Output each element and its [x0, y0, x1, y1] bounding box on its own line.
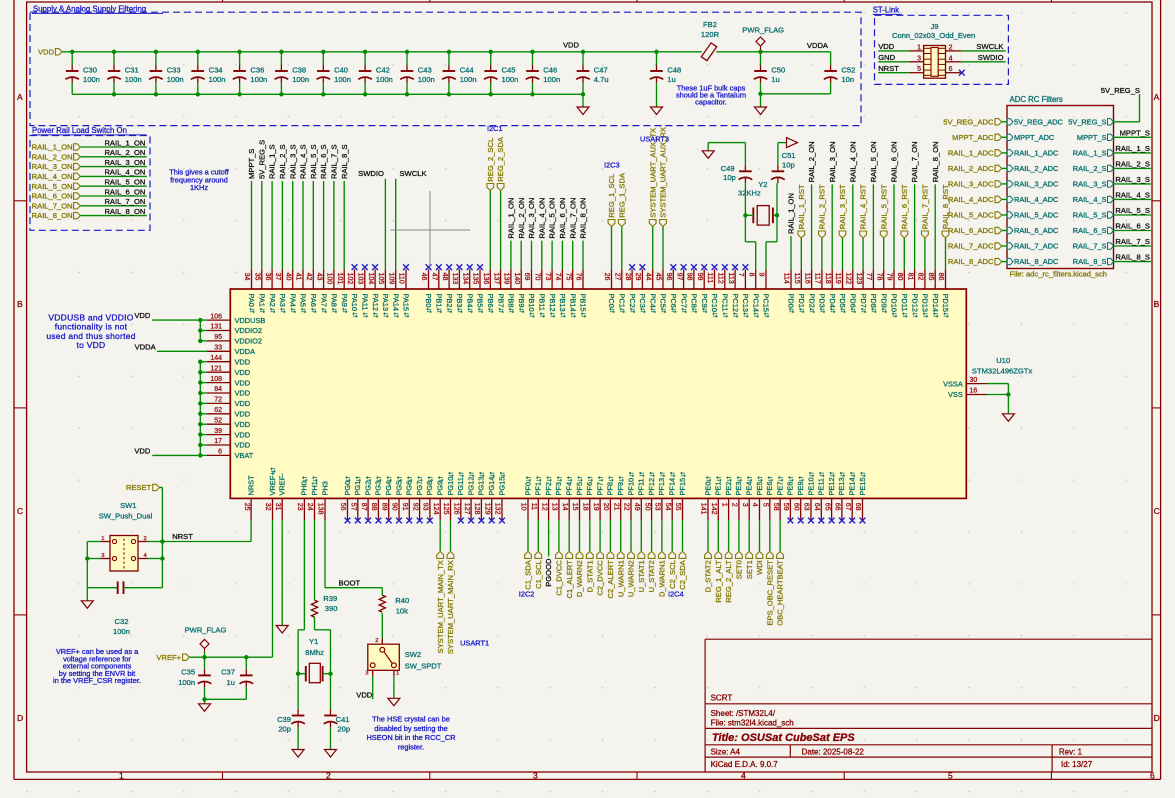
svg-text:128: 128 [473, 503, 480, 515]
svg-text:31: 31 [274, 503, 281, 511]
svg-text:84: 84 [214, 386, 222, 393]
svg-text:Supply & Analog Supply Filteri: Supply & Analog Supply Filtering [33, 5, 146, 14]
svg-text:141: 141 [700, 503, 707, 515]
svg-text:C35: C35 [181, 668, 195, 677]
svg-text:131: 131 [210, 324, 222, 331]
svg-text:register.: register. [398, 742, 424, 751]
svg-text:PF15: PF15 [678, 478, 687, 496]
svg-text:135: 135 [472, 273, 479, 285]
svg-text:RAIL_6_ADC: RAIL_6_ADC [1014, 226, 1059, 235]
svg-text:RAIL_3_ON: RAIL_3_ON [32, 162, 73, 171]
svg-text:PC9: PC9 [700, 294, 709, 308]
svg-text:VDD: VDD [134, 446, 151, 455]
svg-text:C37: C37 [221, 668, 235, 677]
svg-text:PA8: PA8 [330, 294, 339, 307]
svg-text:PG15: PG15 [497, 477, 506, 496]
svg-text:98: 98 [686, 273, 693, 281]
svg-text:VBAT: VBAT [235, 451, 254, 460]
svg-text:100n: 100n [292, 75, 309, 84]
svg-text:74: 74 [554, 273, 561, 281]
svg-text:52: 52 [214, 417, 222, 424]
svg-text:63: 63 [803, 503, 810, 511]
svg-text:2: 2 [731, 503, 738, 507]
svg-text:81: 81 [906, 273, 913, 281]
svg-text:PB8: PB8 [507, 294, 516, 308]
svg-text:C45: C45 [502, 65, 516, 74]
svg-text:PF11: PF11 [637, 478, 646, 495]
svg-text:PG12: PG12 [466, 477, 475, 496]
svg-text:85: 85 [927, 273, 934, 281]
svg-text:PA6: PA6 [309, 294, 318, 307]
svg-text:PA7: PA7 [319, 294, 328, 307]
svg-text:PF6: PF6 [585, 482, 594, 496]
svg-text:SET0: SET0 [735, 560, 744, 579]
svg-text:RAIL_2_S: RAIL_2_S [1115, 159, 1150, 168]
svg-text:RAIL_3_S: RAIL_3_S [1073, 180, 1107, 189]
svg-text:23: 23 [296, 503, 303, 511]
svg-text:PD10: PD10 [890, 294, 899, 313]
svg-text:25: 25 [243, 503, 250, 511]
svg-text:58: 58 [772, 503, 779, 511]
svg-text:REG_1_SCL: REG_1_SCL [607, 174, 616, 218]
svg-text:PC1: PC1 [618, 294, 627, 308]
svg-text:390: 390 [325, 604, 338, 613]
svg-text:100n: 100n [418, 75, 435, 84]
svg-text:RAIL_1_ON: RAIL_1_ON [787, 193, 796, 234]
svg-text:6: 6 [1150, 771, 1155, 781]
svg-text:PD5: PD5 [838, 294, 847, 308]
svg-text:3: 3 [741, 503, 748, 507]
svg-text:Rev: 1: Rev: 1 [1059, 748, 1083, 757]
svg-text:134: 134 [461, 273, 468, 285]
svg-text:RAIL_8_ON: RAIL_8_ON [579, 198, 588, 239]
svg-text:PG7: PG7 [415, 481, 424, 496]
svg-text:RAIL_2_ON: RAIL_2_ON [517, 198, 526, 239]
svg-text:RAIL_8_ADC: RAIL_8_ADC [1014, 257, 1059, 266]
svg-text:15: 15 [571, 503, 578, 511]
svg-text:65: 65 [823, 503, 830, 511]
svg-text:Date: 2025-08-22: Date: 2025-08-22 [802, 748, 865, 757]
svg-text:PB5: PB5 [476, 294, 485, 308]
svg-text:142: 142 [710, 503, 717, 515]
svg-text:PA2: PA2 [268, 294, 277, 307]
svg-text:MPPT_S: MPPT_S [247, 149, 256, 179]
svg-text:PD2: PD2 [807, 294, 816, 308]
svg-text:RAIL_2_ON: RAIL_2_ON [807, 141, 816, 182]
svg-text:VDD: VDD [38, 47, 55, 56]
svg-text:PG9: PG9 [436, 481, 445, 496]
svg-text:5V_REG_S: 5V_REG_S [1068, 117, 1106, 126]
svg-text:100n: 100n [83, 75, 100, 84]
svg-text:PD11: PD11 [900, 294, 909, 312]
svg-text:118: 118 [824, 273, 831, 284]
svg-text:PA5: PA5 [299, 294, 308, 307]
svg-text:U10: U10 [996, 356, 1010, 365]
svg-text:PC2: PC2 [628, 294, 637, 308]
svg-text:3: 3 [533, 771, 538, 781]
svg-text:D_STAT2: D_STAT2 [704, 560, 713, 592]
svg-text:D: D [17, 713, 23, 723]
svg-text:RAIL_6_ON: RAIL_6_ON [104, 187, 145, 196]
svg-text:RESET: RESET [126, 483, 152, 492]
svg-text:91: 91 [401, 503, 408, 511]
svg-text:100n: 100n [502, 75, 519, 84]
svg-text:RAIL_7_ON: RAIL_7_ON [568, 198, 577, 239]
svg-text:PD3: PD3 [818, 294, 827, 308]
svg-text:C2_ALERT: C2_ALERT [606, 560, 615, 599]
svg-text:PC15: PC15 [762, 294, 771, 313]
svg-text:100n: 100n [167, 75, 184, 84]
svg-text:53: 53 [654, 503, 661, 511]
svg-text:PB12: PB12 [548, 294, 557, 312]
svg-text:RAIL_7_S: RAIL_7_S [330, 144, 339, 179]
svg-text:144: 144 [210, 355, 222, 362]
svg-text:33: 33 [214, 345, 222, 352]
svg-text:PB2: PB2 [445, 294, 454, 308]
svg-text:100n: 100n [376, 75, 393, 84]
svg-text:RAIL_5_RST: RAIL_5_RST [879, 184, 888, 229]
svg-text:RAIL_3_S: RAIL_3_S [1115, 175, 1150, 184]
svg-text:SW_Push_Dual: SW_Push_Dual [99, 512, 153, 521]
svg-text:PE9: PE9 [796, 482, 805, 496]
svg-text:PD4: PD4 [828, 294, 837, 308]
svg-text:USART1: USART1 [460, 638, 489, 647]
svg-text:RAIL_5_ADC: RAIL_5_ADC [948, 211, 994, 220]
svg-text:1: 1 [119, 771, 124, 781]
svg-text:14: 14 [561, 503, 568, 511]
svg-text:RAIL_2_S: RAIL_2_S [1073, 164, 1107, 173]
svg-text:File: adc_rc_filters.kicad_sch: File: adc_rc_filters.kicad_sch [1010, 269, 1108, 278]
svg-text:PB1: PB1 [435, 294, 444, 308]
svg-text:129: 129 [483, 503, 490, 515]
svg-text:7: 7 [737, 273, 744, 277]
svg-text:PF4: PF4 [565, 482, 574, 496]
svg-text:PD15: PD15 [941, 294, 950, 313]
svg-text:21: 21 [612, 503, 619, 511]
svg-text:124: 124 [432, 503, 439, 515]
svg-text:RAIL_6_ON: RAIL_6_ON [890, 141, 899, 182]
svg-text:U_STAT2: U_STAT2 [647, 560, 656, 592]
svg-text:50: 50 [643, 503, 650, 511]
svg-text:SYSTEM_UART_MAIN_RX: SYSTEM_UART_MAIN_RX [446, 560, 455, 654]
svg-text:PA4: PA4 [288, 294, 297, 307]
svg-text:D_WARN1: D_WARN1 [658, 560, 667, 597]
svg-text:66: 66 [834, 503, 841, 511]
svg-text:SET1: SET1 [745, 560, 754, 579]
svg-text:55: 55 [674, 503, 681, 511]
svg-text:139: 139 [503, 273, 510, 285]
svg-text:PH3: PH3 [320, 481, 329, 495]
svg-text:93: 93 [422, 503, 429, 511]
svg-text:PB7: PB7 [496, 294, 505, 308]
svg-text:PE7: PE7 [775, 482, 784, 496]
svg-text:C2_SDA: C2_SDA [678, 559, 687, 589]
svg-text:100n: 100n [460, 75, 477, 84]
svg-text:PG13: PG13 [477, 477, 486, 496]
svg-text:10p: 10p [782, 160, 795, 169]
svg-text:A: A [17, 92, 23, 102]
svg-text:Size: A4: Size: A4 [711, 748, 741, 757]
svg-text:C49: C49 [721, 164, 735, 173]
svg-text:RAIL_5_ADC: RAIL_5_ADC [1014, 211, 1059, 220]
svg-text:PG11: PG11 [456, 477, 465, 495]
svg-text:PC11: PC11 [721, 294, 730, 312]
svg-text:68: 68 [854, 503, 861, 511]
svg-text:1u: 1u [667, 75, 675, 84]
svg-text:PA10: PA10 [350, 294, 359, 312]
svg-text:89: 89 [380, 503, 387, 511]
svg-text:J9: J9 [930, 22, 938, 31]
svg-text:VDD: VDD [235, 378, 251, 387]
svg-text:79: 79 [886, 273, 893, 281]
svg-text:BOOT: BOOT [339, 578, 361, 587]
svg-text:PF10: PF10 [626, 478, 635, 496]
svg-text:The HSE crystal can be: The HSE crystal can be [372, 715, 450, 724]
svg-text:RAIL_7_ADC: RAIL_7_ADC [948, 242, 994, 251]
svg-text:PD12: PD12 [910, 294, 919, 313]
svg-text:C50: C50 [771, 65, 785, 74]
svg-text:116: 116 [803, 273, 810, 284]
svg-text:B: B [1154, 299, 1160, 309]
svg-text:8: 8 [747, 273, 754, 277]
svg-text:VDD: VDD [235, 389, 251, 398]
svg-text:112: 112 [717, 273, 724, 284]
svg-text:REG_2_ALT: REG_2_ALT [724, 560, 733, 603]
svg-text:VDD: VDD [235, 420, 251, 429]
svg-text:R40: R40 [395, 596, 409, 605]
svg-text:HSEON bit in the RCC_CR: HSEON bit in the RCC_CR [366, 733, 455, 742]
svg-text:RAIL_6_S: RAIL_6_S [1115, 222, 1150, 231]
svg-text:RAIL_2_ON: RAIL_2_ON [32, 152, 73, 161]
svg-text:114: 114 [783, 273, 790, 284]
svg-text:90: 90 [391, 503, 398, 511]
svg-text:100n: 100n [543, 75, 560, 84]
svg-text:RAIL_3_ON: RAIL_3_ON [527, 198, 536, 239]
svg-text:PG2: PG2 [363, 481, 372, 496]
svg-text:Y2: Y2 [758, 180, 767, 189]
svg-text:ST-Link: ST-Link [873, 6, 900, 15]
svg-text:41: 41 [295, 273, 302, 281]
svg-text:VDD: VDD [235, 441, 251, 450]
svg-text:16: 16 [970, 388, 978, 395]
svg-text:78: 78 [875, 273, 882, 281]
svg-text:SWDIO: SWDIO [978, 53, 1004, 62]
svg-text:82: 82 [917, 273, 924, 281]
svg-text:REG_1_ALT: REG_1_ALT [714, 560, 723, 603]
svg-text:3: 3 [917, 55, 921, 62]
svg-text:PE2: PE2 [724, 482, 733, 496]
svg-text:101: 101 [336, 273, 343, 285]
svg-text:103: 103 [357, 273, 364, 285]
svg-text:PE5: PE5 [755, 482, 764, 496]
svg-text:SYSTEM_UART_MAIN_TX: SYSTEM_UART_MAIN_TX [436, 560, 445, 653]
svg-text:RAIL_1_ON: RAIL_1_ON [507, 198, 516, 239]
svg-text:RAIL_7_ON: RAIL_7_ON [32, 201, 73, 210]
svg-text:9: 9 [758, 273, 765, 277]
svg-text:C39: C39 [277, 715, 291, 724]
svg-text:28: 28 [624, 273, 631, 281]
svg-text:SCRT: SCRT [711, 693, 733, 702]
svg-text:A: A [1154, 92, 1160, 102]
svg-text:127: 127 [463, 503, 470, 515]
svg-text:136: 136 [482, 273, 489, 285]
svg-text:60: 60 [792, 503, 799, 511]
svg-text:11: 11 [530, 503, 537, 510]
svg-text:PE3: PE3 [734, 482, 743, 496]
svg-text:4.7u: 4.7u [594, 75, 609, 84]
svg-text:48: 48 [441, 273, 448, 281]
svg-text:PE1: PE1 [714, 482, 723, 496]
svg-text:U_STAT1: U_STAT1 [637, 560, 646, 592]
svg-text:137: 137 [492, 273, 499, 285]
svg-text:67: 67 [844, 503, 851, 511]
svg-text:PC13: PC13 [741, 294, 750, 313]
svg-text:NRST: NRST [878, 64, 899, 73]
svg-text:PC4: PC4 [648, 294, 657, 308]
svg-text:49: 49 [633, 503, 640, 511]
svg-text:1: 1 [101, 536, 104, 542]
svg-text:100n: 100n [334, 75, 351, 84]
svg-text:32: 32 [264, 503, 271, 511]
svg-text:VSS: VSS [948, 390, 963, 399]
svg-text:32KHz: 32KHz [738, 189, 761, 198]
svg-text:100n: 100n [250, 75, 267, 84]
svg-text:62: 62 [214, 407, 222, 414]
svg-text:PB4: PB4 [465, 294, 474, 308]
svg-text:5V_REG_S: 5V_REG_S [1101, 86, 1140, 95]
svg-text:5: 5 [762, 503, 769, 507]
svg-text:PD9: PD9 [879, 294, 888, 308]
svg-text:VDD: VDD [356, 690, 373, 699]
svg-text:45: 45 [655, 273, 662, 281]
svg-text:59: 59 [782, 503, 789, 511]
svg-text:C42: C42 [376, 65, 390, 74]
svg-text:PC6: PC6 [669, 294, 678, 308]
svg-text:C2_DVCC: C2_DVCC [596, 560, 605, 596]
svg-text:RAIL_7_RST: RAIL_7_RST [921, 184, 930, 229]
svg-text:RAIL_8_S: RAIL_8_S [1073, 257, 1107, 266]
svg-text:Sheet: /STM32L4/: Sheet: /STM32L4/ [711, 709, 776, 718]
svg-text:PC0: PC0 [607, 294, 616, 308]
svg-text:100n: 100n [125, 75, 142, 84]
svg-text:PE8: PE8 [786, 482, 795, 496]
svg-text:RAIL_4_S: RAIL_4_S [1115, 190, 1150, 199]
svg-text:44: 44 [644, 273, 651, 281]
svg-text:MPPT_S: MPPT_S [1120, 128, 1150, 137]
svg-text:PB10: PB10 [527, 294, 536, 312]
svg-text:RAIL_8_ADC: RAIL_8_ADC [948, 257, 994, 266]
svg-text:USART3: USART3 [640, 135, 669, 144]
svg-text:69: 69 [523, 273, 530, 281]
svg-text:22: 22 [623, 503, 630, 511]
svg-text:RAIL_2_S: RAIL_2_S [278, 144, 287, 179]
svg-text:10p: 10p [723, 173, 736, 182]
svg-text:PC5: PC5 [659, 294, 668, 308]
svg-text:PF0: PF0 [523, 482, 532, 496]
svg-text:1u: 1u [771, 75, 779, 84]
svg-text:54: 54 [664, 503, 671, 511]
svg-text:RAIL_4_ON: RAIL_4_ON [32, 172, 73, 181]
svg-text:102: 102 [346, 273, 353, 285]
svg-text:20: 20 [602, 503, 609, 511]
svg-text:35: 35 [254, 273, 261, 281]
svg-text:87: 87 [360, 503, 367, 511]
svg-text:75: 75 [564, 273, 571, 281]
svg-text:U_WARN2: U_WARN2 [627, 560, 636, 597]
svg-text:C32: C32 [115, 617, 129, 626]
svg-text:VDD: VDD [235, 399, 251, 408]
svg-text:PE15: PE15 [858, 477, 867, 495]
svg-text:PE10: PE10 [806, 477, 815, 495]
svg-text:C30: C30 [83, 65, 97, 74]
svg-text:PF1: PF1 [534, 482, 543, 496]
svg-text:111: 111 [706, 273, 713, 284]
svg-text:37: 37 [274, 273, 281, 281]
svg-text:VDDA: VDDA [235, 347, 256, 356]
svg-text:126: 126 [453, 503, 460, 515]
svg-text:VREF-: VREF- [278, 473, 287, 496]
svg-text:96: 96 [665, 273, 672, 281]
svg-text:123: 123 [855, 273, 862, 285]
svg-text:RAIL_8_ON: RAIL_8_ON [931, 141, 940, 182]
svg-text:EPS_OBC_RESET: EPS_OBC_RESET [765, 560, 774, 626]
svg-text:3: 3 [365, 671, 368, 677]
svg-text:110: 110 [398, 273, 405, 284]
svg-text:39: 39 [214, 428, 222, 435]
svg-text:VDD: VDD [235, 357, 251, 366]
svg-text:NRST: NRST [246, 475, 255, 496]
svg-text:RAIL_1_ON: RAIL_1_ON [104, 138, 145, 147]
svg-text:20p: 20p [278, 724, 291, 733]
svg-text:VREF+: VREF+ [156, 653, 181, 662]
svg-text:1: 1 [720, 503, 727, 507]
svg-text:120R: 120R [701, 30, 720, 39]
svg-text:RAIL_2_ADC: RAIL_2_ADC [948, 164, 994, 173]
svg-text:RAIL_8_ON: RAIL_8_ON [32, 211, 73, 220]
svg-text:RAIL_3_ON: RAIL_3_ON [828, 141, 837, 182]
svg-text:77: 77 [865, 273, 872, 281]
svg-text:RAIL_4_ADC: RAIL_4_ADC [1014, 195, 1059, 204]
svg-text:34: 34 [243, 273, 250, 281]
svg-text:2: 2 [326, 771, 331, 781]
svg-text:PF13: PF13 [657, 478, 666, 496]
svg-text:MPPT_ADC: MPPT_ADC [1014, 133, 1055, 142]
svg-text:17: 17 [214, 438, 222, 445]
svg-text:1: 1 [917, 44, 921, 51]
svg-text:VDD: VDD [563, 40, 580, 49]
svg-text:PA12: PA12 [371, 294, 380, 312]
svg-text:PE11: PE11 [817, 478, 826, 496]
svg-text:PG4: PG4 [384, 481, 393, 496]
svg-text:Conn_02x03_Odd_Even: Conn_02x03_Odd_Even [892, 31, 975, 40]
svg-text:RAIL_5_ON: RAIL_5_ON [104, 178, 145, 187]
svg-text:C1_ALERT: C1_ALERT [565, 560, 574, 599]
svg-text:105: 105 [377, 273, 384, 285]
svg-text:C2_SCL: C2_SCL [668, 560, 677, 589]
svg-text:20p: 20p [337, 724, 350, 733]
svg-text:80: 80 [896, 273, 903, 281]
svg-text:GND: GND [878, 53, 895, 62]
svg-text:PE6: PE6 [765, 482, 774, 496]
svg-text:PF2: PF2 [544, 482, 553, 496]
svg-text:RAIL_6_S: RAIL_6_S [319, 144, 328, 179]
svg-text:70: 70 [534, 273, 541, 281]
svg-text:RAIL_3_ADC: RAIL_3_ADC [1014, 180, 1059, 189]
svg-text:117: 117 [814, 273, 821, 284]
svg-text:RAIL_1_S: RAIL_1_S [268, 144, 277, 179]
svg-text:2: 2 [375, 638, 378, 644]
svg-text:RAIL_3_S: RAIL_3_S [288, 144, 297, 179]
